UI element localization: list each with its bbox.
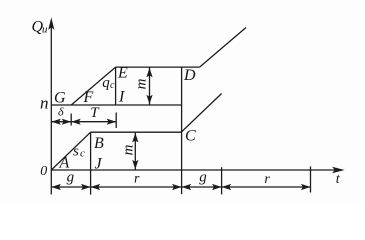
svg-text:g: g — [199, 169, 207, 185]
svg-text:n: n — [40, 94, 49, 113]
svg-text:r: r — [264, 172, 270, 187]
svg-text:δ: δ — [58, 104, 64, 118]
svg-text:u: u — [42, 24, 48, 36]
svg-text:C: C — [185, 127, 196, 144]
svg-text:r: r — [134, 172, 140, 187]
svg-text:B: B — [94, 135, 104, 152]
svg-text:I: I — [118, 89, 125, 106]
svg-text:c: c — [110, 80, 115, 91]
svg-text:0: 0 — [40, 164, 47, 179]
svg-text:m: m — [120, 144, 136, 155]
svg-text:D: D — [183, 67, 196, 84]
svg-text:s: s — [73, 144, 79, 160]
svg-text:c: c — [80, 148, 85, 160]
svg-text:E: E — [117, 65, 128, 82]
svg-text:F: F — [83, 89, 94, 106]
svg-text:m: m — [134, 78, 150, 89]
svg-text:J: J — [95, 156, 103, 173]
svg-text:g: g — [67, 170, 75, 186]
